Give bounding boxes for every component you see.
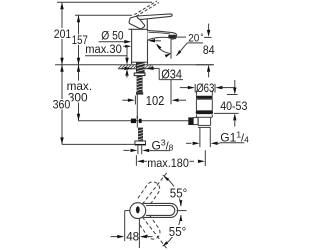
- svg-text:Ø63: Ø63: [196, 81, 214, 95]
- svg-text:40-53: 40-53: [220, 99, 247, 113]
- svg-text:°: °: [200, 32, 203, 42]
- svg-text:G11/4: G11/4: [220, 129, 249, 144]
- svg-text:55°: 55°: [170, 187, 187, 201]
- svg-text:G3/8: G3/8: [152, 137, 174, 152]
- svg-text:55°: 55°: [169, 225, 186, 239]
- svg-text:201: 201: [54, 27, 72, 41]
- svg-text:48: 48: [126, 229, 139, 243]
- svg-text:Ø34: Ø34: [161, 66, 182, 81]
- svg-text:max.30: max.30: [85, 44, 122, 56]
- svg-text:84: 84: [203, 43, 215, 57]
- svg-text:Ø 50: Ø 50: [101, 29, 124, 43]
- svg-text:360: 360: [53, 98, 71, 112]
- svg-text:102: 102: [146, 93, 165, 108]
- svg-text:max.180: max.180: [147, 156, 189, 170]
